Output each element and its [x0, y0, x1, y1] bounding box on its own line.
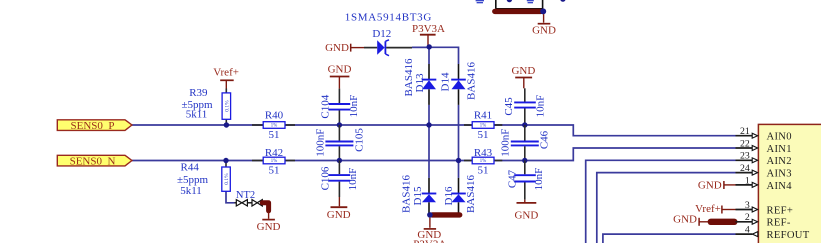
svg-text:51: 51: [478, 129, 489, 141]
pin 21 AIN0: [736, 126, 792, 143]
wire AIN2 feeder from bottom: [586, 160, 736, 243]
top cropped section: ground GND: [532, 14, 556, 36]
svg-text:Vref+: Vref+: [695, 203, 721, 215]
svg-text:0.1%: 0.1%: [224, 100, 230, 112]
svg-text:1%: 1%: [480, 124, 486, 129]
top cropped section: text fragment left: [476, 1, 484, 3]
svg-text:51: 51: [478, 165, 489, 177]
svg-text:REFOUT: REFOUT: [767, 230, 810, 241]
capacitor C47: [514, 161, 536, 200]
svg-text:GND: GND: [673, 214, 697, 226]
wire D14 column upper: [458, 47, 460, 65]
svg-text:D12: D12: [372, 28, 391, 40]
pin 22 AIN1: [736, 138, 792, 155]
svg-text:GND: GND: [328, 64, 352, 76]
diode D12 zener: [364, 40, 412, 56]
label D14: [439, 62, 477, 100]
node junction C104/W1: [337, 122, 342, 127]
wire D13 column lower: [428, 105, 430, 125]
svg-text:REF-: REF-: [767, 218, 791, 229]
pin 1 AIN4: [736, 175, 793, 192]
resistor R43: [464, 157, 502, 164]
wire D12 right: [412, 46, 429, 48]
svg-text:3: 3: [745, 200, 750, 211]
label R41: [474, 110, 492, 141]
pin 3 REF+: [736, 200, 794, 217]
label R40: [265, 110, 284, 141]
svg-text:BAS416: BAS416: [400, 175, 412, 213]
svg-text:REF+: REF+: [767, 205, 794, 216]
svg-text:51: 51: [269, 129, 280, 141]
IC U? body: [758, 124, 821, 243]
svg-text:R43: R43: [474, 147, 493, 159]
resistor R42: [252, 157, 295, 164]
top cropped section: diode lead right: [542, 0, 544, 9]
node junction D14/W2: [456, 158, 461, 163]
diode D16: [451, 178, 466, 215]
top cropped section: dot fragment right: [560, 0, 565, 2]
ground GND below C47: [514, 200, 538, 222]
svg-text:10nF: 10nF: [533, 168, 545, 191]
svg-text:5k11: 5k11: [180, 185, 202, 197]
top cropped section: net tie bus: [495, 9, 541, 14]
wire SENS0_N main horizontal to AIN1: [132, 148, 736, 161]
svg-text:GND: GND: [532, 24, 556, 36]
svg-text:D13: D13: [414, 73, 426, 92]
wire REFOUT to bottom: [603, 234, 736, 243]
node junction bus: [427, 212, 433, 218]
node junction R44/W2: [223, 158, 228, 163]
resistor R40: [252, 122, 295, 129]
ground GND below bus: [417, 218, 441, 241]
svg-text:4: 4: [745, 225, 750, 236]
label C105: [315, 128, 366, 157]
label R42: [265, 147, 283, 177]
label D16: [443, 175, 477, 213]
svg-text:AIN4: AIN4: [767, 181, 793, 192]
svg-text:GND: GND: [257, 221, 281, 233]
node junction C45/W1: [522, 122, 527, 127]
net tie bus below D15 D16: [432, 212, 460, 217]
svg-text:BAS416: BAS416: [465, 175, 477, 213]
svg-text:1%: 1%: [271, 159, 277, 164]
label R39: [181, 87, 213, 120]
svg-text:GND: GND: [511, 65, 535, 77]
diode D13: [422, 64, 437, 105]
wire R44 bottom to net tie: [226, 191, 235, 203]
svg-text:Vref+: Vref+: [213, 67, 239, 79]
svg-text:AIN0: AIN0: [767, 132, 792, 143]
svg-text:24: 24: [740, 163, 750, 174]
top cropped section: node junction: [540, 8, 546, 14]
diode D15: [422, 178, 437, 215]
capacitor C45: [514, 88, 536, 125]
label C47: [507, 168, 545, 191]
svg-text:AIN1: AIN1: [767, 144, 792, 155]
svg-text:C104: C104: [319, 94, 331, 118]
port SENS0_N: [57, 155, 132, 167]
wire D13 column upper: [428, 47, 430, 65]
svg-text:R42: R42: [265, 147, 283, 159]
capacitor C104: [329, 89, 351, 125]
svg-text:1%: 1%: [271, 124, 277, 129]
svg-text:C106: C106: [320, 166, 332, 190]
svg-text:GND: GND: [514, 210, 538, 222]
svg-text:GND: GND: [325, 42, 349, 54]
resistor R41: [464, 122, 502, 129]
node junction C105/W2: [337, 158, 342, 163]
wire D15 column: [428, 125, 430, 178]
wire AIN3 feeder from bottom: [597, 173, 736, 243]
wire SENS0_P main horizontal to AIN0: [132, 125, 736, 136]
pin 4 REFOUT: [736, 225, 810, 242]
svg-text:0.1%: 0.1%: [224, 173, 230, 185]
power port P3V3A: [412, 23, 445, 47]
svg-text:R44: R44: [181, 161, 200, 173]
top cropped section: text fragment middle: [527, 1, 534, 3]
node junction P3V3A: [427, 44, 432, 49]
pin 23 AIN2: [736, 151, 792, 168]
net tie bead at REF-: [711, 219, 735, 225]
svg-text:21: 21: [740, 126, 750, 137]
svg-text:10nF: 10nF: [534, 95, 546, 118]
svg-text:P3V3A: P3V3A: [412, 23, 445, 35]
svg-text:R41: R41: [474, 110, 492, 122]
top cropped section: wire across: [496, 8, 543, 10]
svg-text:GND: GND: [698, 180, 722, 192]
svg-text:SENS0_P: SENS0_P: [70, 120, 114, 132]
power port GND at AIN4: [698, 180, 736, 192]
svg-text:D15: D15: [412, 186, 424, 205]
label C46: [500, 129, 551, 157]
svg-text:C46: C46: [539, 130, 551, 149]
svg-text:1%: 1%: [480, 159, 486, 164]
svg-text:C105: C105: [354, 128, 366, 152]
svg-text:C47: C47: [507, 169, 519, 188]
svg-text:5k11: 5k11: [186, 108, 208, 120]
svg-text:BAS416: BAS416: [465, 62, 477, 100]
capacitor C105: [325, 125, 353, 161]
net tie NT2: [235, 190, 269, 211]
svg-text:10nF: 10nF: [348, 95, 360, 118]
svg-text:1: 1: [745, 175, 750, 186]
ground GND below C106: [327, 197, 351, 221]
power port GND left of D12: [325, 42, 364, 54]
node junction D13/W1: [426, 122, 431, 127]
top cropped section: diode lead left: [495, 0, 497, 9]
node junction C46/W2: [522, 158, 527, 163]
svg-text:1SMA5914BT3G: 1SMA5914BT3G: [345, 12, 432, 24]
svg-text:51: 51: [269, 165, 280, 177]
label C104: [319, 94, 360, 118]
node junction R39/W1: [224, 122, 229, 127]
svg-text:22: 22: [740, 138, 750, 149]
svg-text:23: 23: [740, 151, 750, 162]
power port Vref+ at REF+: [695, 203, 735, 215]
wire D16 column: [458, 161, 460, 178]
svg-text:C45: C45: [503, 97, 515, 116]
label R44: [177, 161, 209, 197]
ground GND below NT2: [257, 213, 281, 234]
svg-text:2: 2: [745, 212, 750, 223]
wire P3V3A node horizontal: [412, 46, 459, 48]
label C45: [503, 95, 547, 118]
svg-text:R39: R39: [189, 87, 208, 99]
label R43: [474, 147, 493, 177]
svg-text:D16: D16: [443, 186, 455, 205]
wire D14 column lower: [458, 105, 460, 161]
capacitor C106: [329, 161, 351, 198]
svg-text:100nF: 100nF: [500, 129, 512, 157]
power port Vref+ above R39: [213, 67, 239, 89]
label D15: [400, 175, 424, 213]
resistor R44: [222, 161, 231, 192]
pin 24 AIN3: [736, 163, 792, 180]
svg-text:P3V3A: P3V3A: [413, 239, 446, 243]
label D13: [403, 58, 426, 96]
svg-text:100nF: 100nF: [315, 129, 327, 157]
svg-text:AIN3: AIN3: [767, 169, 792, 180]
capacitor C46: [511, 125, 539, 161]
pin 2 REF-: [736, 212, 791, 229]
svg-text:R40: R40: [265, 110, 284, 122]
power port GND at REF-: [673, 214, 708, 226]
svg-text:10nF: 10nF: [347, 168, 359, 191]
diode D14: [451, 64, 466, 105]
svg-text:GND: GND: [327, 209, 351, 221]
resistor R39: [222, 89, 231, 126]
port SENS0_P: [57, 120, 132, 132]
label C106: [320, 166, 359, 190]
svg-text:AIN2: AIN2: [767, 156, 792, 167]
svg-text:SENS0_N: SENS0_N: [70, 155, 116, 167]
power port GND above C45: [511, 65, 535, 88]
top cropped section: dot fragment left: [507, 0, 512, 2]
svg-text:D14: D14: [439, 72, 451, 91]
power port GND above C104: [328, 64, 352, 89]
